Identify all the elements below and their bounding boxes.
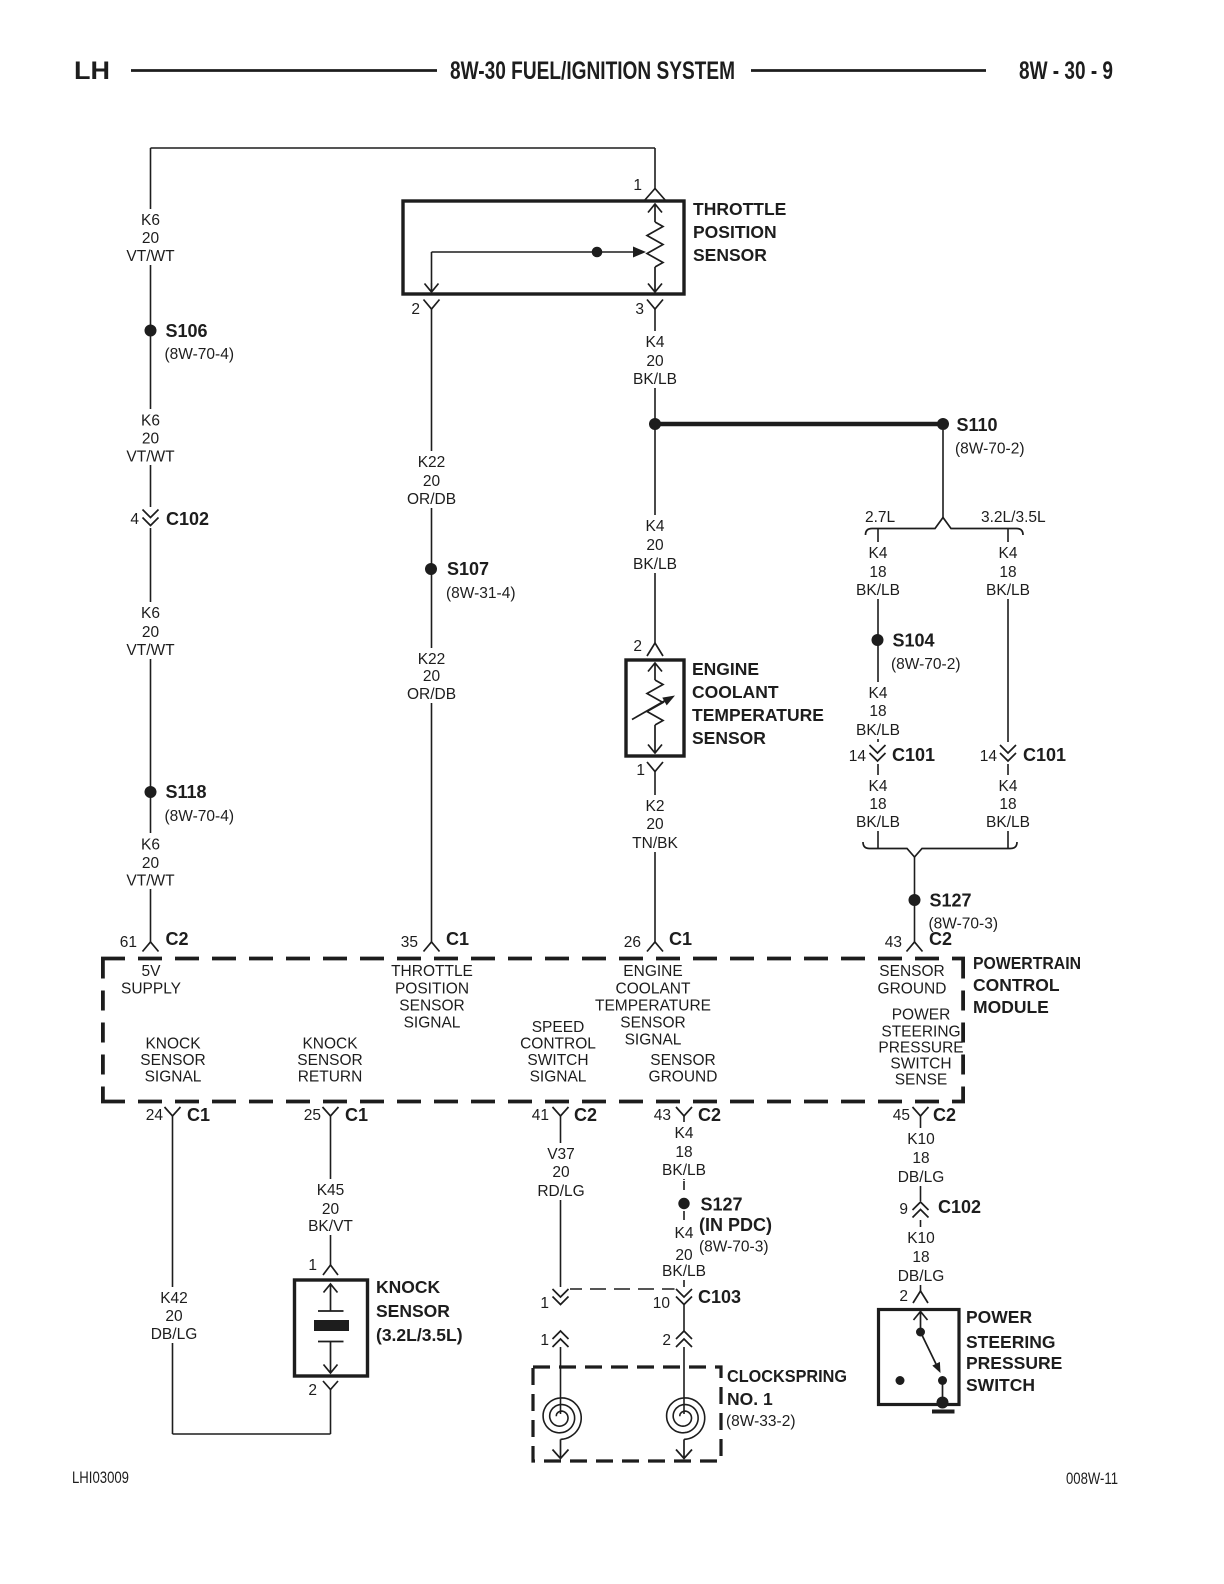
engine coolant temperature sensor box: [626, 660, 684, 756]
svg-text:18: 18: [869, 564, 886, 581]
svg-text:SPEED: SPEED: [532, 1019, 585, 1036]
svg-text:SWITCH: SWITCH: [966, 1375, 1035, 1395]
wire K4 from PCM pin 43 to S127 in PDC: [683, 1116, 685, 1180]
svg-text:18: 18: [912, 1150, 929, 1167]
svg-text:K6: K6: [141, 837, 160, 854]
TPS wiper wire: [432, 252, 635, 283]
wire label K4 20 BK/LB PDC lower: [662, 1222, 706, 1280]
wire label K4 18 BK/LB 3.2L lower: [986, 775, 1030, 831]
wire K2 from ECT sensor pin 1 to PCM pin 26: [654, 771, 656, 942]
connector C101 left: [868, 742, 887, 764]
svg-text:SENSE: SENSE: [895, 1072, 948, 1089]
svg-text:BK/VT: BK/VT: [308, 1218, 353, 1235]
svg-text:3.2L/3.5L: 3.2L/3.5L: [981, 509, 1046, 526]
svg-text:C101: C101: [1023, 745, 1066, 765]
wire label K2 20 TN/BK: [632, 795, 678, 852]
power steering pressure switch box: [879, 1310, 960, 1405]
svg-text:VT/WT: VT/WT: [126, 873, 175, 890]
svg-text:GROUND: GROUND: [878, 981, 947, 998]
wire K4 3.2L/3.5L branch down to merge: [1007, 528, 1009, 848]
svg-text:POWER: POWER: [892, 1007, 951, 1024]
splice S110: [937, 418, 949, 430]
svg-text:20: 20: [142, 624, 160, 641]
splice S127 in PDC: [678, 1198, 689, 1209]
svg-text:8W-30 FUEL/IGNITION SYSTEM: 8W-30 FUEL/IGNITION SYSTEM: [450, 57, 735, 85]
svg-text:K2: K2: [646, 798, 665, 815]
dashed link between C103 connectors: [566, 1288, 676, 1290]
svg-text:OR/DB: OR/DB: [407, 491, 456, 508]
svg-text:CONTROL: CONTROL: [973, 975, 1060, 995]
wire K6 left column vertical: [150, 148, 152, 942]
wire S110 stem down to engine split: [942, 430, 944, 518]
svg-text:20: 20: [165, 1308, 183, 1325]
wire dashed stub above S127: [683, 1181, 685, 1196]
svg-text:K22: K22: [418, 651, 446, 668]
svg-text:DB/LG: DB/LG: [898, 1268, 945, 1285]
connector C103 right half pin 10: [675, 1287, 694, 1305]
merge bracket: [863, 842, 1017, 857]
wire label K6 20 VT/WT second: [126, 409, 175, 466]
wire label K22 20 OR/DB upper: [407, 451, 456, 508]
PCM top pin 43 C2 connector: [907, 942, 923, 952]
svg-text:18: 18: [999, 564, 1016, 581]
clockspring connector pin 2: [676, 1331, 692, 1347]
svg-text:THROTTLE: THROTTLE: [693, 199, 786, 219]
wire label K4 20 BK/LB lower: [633, 515, 677, 573]
wire K4 2.7L branch down to merge: [877, 528, 879, 848]
svg-text:(8W-33-2): (8W-33-2): [726, 1413, 795, 1430]
svg-text:K6: K6: [141, 413, 160, 430]
svg-text:K4: K4: [999, 545, 1018, 562]
svg-text:45: 45: [893, 1107, 910, 1124]
svg-text:K4: K4: [675, 1125, 694, 1142]
throttle position sensor box: [403, 201, 684, 294]
svg-text:STEERING: STEERING: [881, 1024, 960, 1041]
svg-text:(8W-70-3): (8W-70-3): [699, 1239, 768, 1256]
wire label K10 18 DB/LG lower: [898, 1227, 945, 1285]
svg-text:K4: K4: [999, 778, 1018, 795]
PCM bottom pin 41 C2 connector: [553, 1107, 569, 1116]
wire V37 from PCM pin 41 to connector: [560, 1116, 562, 1289]
PSP switch open contact: [896, 1376, 905, 1385]
wire label V37 20 RD/LG: [537, 1143, 584, 1200]
svg-text:1: 1: [540, 1295, 549, 1312]
clockspring coil left: [560, 1396, 562, 1414]
svg-text:C1: C1: [345, 1105, 368, 1125]
svg-text:K6: K6: [141, 212, 160, 229]
svg-text:SIGNAL: SIGNAL: [145, 1069, 202, 1086]
svg-text:2: 2: [308, 1382, 317, 1399]
svg-text:C2: C2: [933, 1105, 956, 1125]
svg-text:20: 20: [423, 668, 441, 685]
svg-text:DB/LG: DB/LG: [151, 1326, 198, 1343]
wire label K6 20 VT/WT fourth: [126, 833, 175, 890]
svg-text:C102: C102: [938, 1197, 981, 1217]
wire K4 from TPS pin 3 to ECT sensor pin 2: [654, 309, 656, 643]
svg-text:2: 2: [633, 638, 642, 655]
ECT thermistor resistor: [647, 663, 663, 753]
svg-text:BK/LB: BK/LB: [986, 814, 1030, 831]
svg-text:SWITCH: SWITCH: [890, 1056, 951, 1073]
svg-text:STEERING: STEERING: [966, 1332, 1055, 1352]
svg-text:C2: C2: [698, 1105, 721, 1125]
svg-text:LHI03009: LHI03009: [72, 1468, 129, 1487]
svg-text:C1: C1: [187, 1105, 210, 1125]
svg-text:BK/LB: BK/LB: [856, 582, 900, 599]
splice S118: [145, 786, 157, 798]
splice S106: [145, 325, 157, 337]
svg-text:POWER: POWER: [966, 1307, 1032, 1327]
PCM bottom pin 24 C1 connector: [165, 1107, 181, 1116]
svg-text:18: 18: [869, 796, 886, 813]
wire label K6 20 VT/WT upper: [126, 209, 175, 265]
clockspring no. 1 dashed box: [533, 1367, 721, 1461]
svg-text:BK/LB: BK/LB: [633, 371, 677, 388]
svg-text:POSITION: POSITION: [395, 981, 469, 998]
svg-text:26: 26: [624, 934, 641, 951]
svg-text:9: 9: [899, 1201, 908, 1218]
svg-text:S127: S127: [701, 1195, 743, 1215]
svg-text:K4: K4: [869, 685, 888, 702]
svg-text:SENSOR: SENSOR: [650, 1052, 715, 1069]
svg-text:20: 20: [142, 431, 160, 448]
svg-text:TEMPERATURE: TEMPERATURE: [692, 705, 824, 725]
svg-text:K4: K4: [869, 778, 888, 795]
svg-text:3: 3: [635, 301, 644, 318]
PSP switch blade: [921, 1332, 937, 1364]
svg-text:RD/LG: RD/LG: [537, 1183, 584, 1200]
svg-text:C101: C101: [892, 745, 935, 765]
svg-text:COOLANT: COOLANT: [616, 981, 691, 998]
connector C103 left half pin 1: [551, 1287, 570, 1305]
wire label K6 20 VT/WT third: [126, 602, 175, 659]
svg-text:1: 1: [540, 1332, 549, 1349]
svg-text:2: 2: [411, 301, 420, 318]
splice S127: [909, 894, 921, 906]
wire K10 from C102 to power steering switch pin 2: [920, 1217, 922, 1291]
PCM top pin 26 C1 connector: [647, 942, 663, 952]
svg-text:BK/LB: BK/LB: [633, 556, 677, 573]
svg-text:20: 20: [646, 353, 664, 370]
svg-text:C102: C102: [166, 509, 209, 529]
svg-text:S107: S107: [447, 559, 489, 579]
svg-text:2: 2: [899, 1288, 908, 1305]
svg-text:CLOCKSPRING: CLOCKSPRING: [727, 1366, 847, 1386]
svg-text:S106: S106: [166, 321, 208, 341]
svg-text:K4: K4: [646, 518, 665, 535]
svg-text:SENSOR: SENSOR: [692, 728, 766, 748]
PSP switch lower contact: [938, 1376, 947, 1385]
svg-text:SENSOR: SENSOR: [376, 1301, 450, 1321]
svg-text:18: 18: [869, 703, 886, 720]
svg-text:TEMPERATURE: TEMPERATURE: [595, 998, 711, 1015]
svg-text:PRESSURE: PRESSURE: [878, 1040, 963, 1057]
svg-text:(8W-31-4): (8W-31-4): [446, 585, 515, 602]
wire label K4 18 BK/LB 2.7L mid: [856, 682, 900, 739]
svg-text:20: 20: [646, 537, 664, 554]
junction node K4: [649, 418, 661, 430]
svg-text:ENGINE: ENGINE: [623, 963, 682, 980]
svg-text:TN/BK: TN/BK: [632, 835, 678, 852]
svg-text:POWERTRAIN: POWERTRAIN: [973, 953, 1081, 973]
connector C102 inline right pin 9: [911, 1201, 930, 1220]
svg-text:OR/DB: OR/DB: [407, 686, 456, 703]
svg-text:(8W-70-4): (8W-70-4): [165, 808, 234, 825]
svg-text:14: 14: [849, 748, 867, 765]
svg-text:10: 10: [653, 1295, 671, 1312]
svg-text:S104: S104: [893, 631, 935, 651]
knock sensor pin 2 connector: [323, 1381, 338, 1390]
svg-text:C2: C2: [574, 1105, 597, 1125]
svg-text:K10: K10: [907, 1230, 935, 1247]
svg-text:BK/LB: BK/LB: [856, 722, 900, 739]
svg-text:C1: C1: [669, 929, 692, 949]
wire K22 from TPS pin 2 to PCM pin 35: [431, 309, 433, 942]
svg-text:(IN PDC): (IN PDC): [699, 1215, 772, 1235]
connector C102 inline left: [141, 507, 160, 528]
TPS pin 1 connector: [644, 189, 666, 202]
wire label K42 20 DB/LG: [151, 1287, 198, 1343]
PSP ground dot: [937, 1397, 949, 1409]
svg-text:GROUND: GROUND: [649, 1069, 718, 1086]
wire merge stem to splice S127 and PCM pin 43: [914, 857, 916, 942]
wire label K22 20 OR/DB lower: [407, 648, 456, 703]
header rule right: [751, 69, 986, 72]
svg-text:(8W-70-2): (8W-70-2): [955, 441, 1024, 458]
wire knock sensor pin 2 down: [330, 1390, 332, 1435]
svg-text:SENSOR: SENSOR: [693, 245, 767, 265]
svg-text:COOLANT: COOLANT: [692, 682, 779, 702]
svg-text:20: 20: [552, 1164, 570, 1181]
PCM top pin 61 C2 connector: [143, 942, 159, 952]
svg-text:1: 1: [308, 1257, 317, 1274]
PCM top pin 35 C1 connector: [424, 942, 440, 952]
svg-text:(8W-70-4): (8W-70-4): [165, 346, 234, 363]
svg-text:SENSOR: SENSOR: [297, 1052, 362, 1069]
svg-text:BK/LB: BK/LB: [662, 1263, 706, 1280]
knock sensor pin 1 connector: [323, 1265, 338, 1275]
svg-text:K22: K22: [418, 454, 446, 471]
knock sensor box: [295, 1280, 368, 1376]
power steering switch pin 2 connector: [913, 1291, 928, 1303]
svg-text:V37: V37: [547, 1146, 575, 1163]
svg-text:008W-11: 008W-11: [1066, 1469, 1118, 1488]
clockspring coil right: [683, 1396, 685, 1414]
svg-text:RETURN: RETURN: [298, 1069, 363, 1086]
svg-text:ENGINE: ENGINE: [692, 659, 759, 679]
wire clockspring pin 1 into spiral: [560, 1347, 562, 1396]
svg-text:S127: S127: [930, 891, 972, 911]
TPS wiper junction dot: [592, 247, 603, 258]
wire thick K4 junction to splice S110: [655, 422, 943, 426]
wire top horizontal from K6 column to TPS pin 1: [151, 147, 656, 149]
wire TPS pin 1 stub: [654, 148, 656, 189]
clockspring connector pin 1: [553, 1331, 569, 1347]
wire into C103 connector: [683, 1280, 685, 1289]
svg-text:KNOCK: KNOCK: [302, 1036, 358, 1053]
svg-text:SENSOR: SENSOR: [140, 1052, 205, 1069]
svg-text:4: 4: [130, 511, 139, 528]
knock sensor piezo element: [314, 1284, 349, 1373]
svg-text:41: 41: [532, 1107, 549, 1124]
svg-text:C1: C1: [446, 929, 469, 949]
svg-text:MODULE: MODULE: [973, 997, 1049, 1017]
svg-text:25: 25: [304, 1107, 321, 1124]
svg-text:(3.2L/3.5L): (3.2L/3.5L): [376, 1325, 463, 1345]
svg-text:5V: 5V: [142, 963, 162, 980]
svg-text:K4: K4: [675, 1225, 694, 1242]
svg-text:61: 61: [120, 934, 137, 951]
PSP switch common contact: [916, 1328, 925, 1337]
PCM bottom pin 43 C2 connector: [676, 1107, 692, 1116]
svg-text:K4: K4: [646, 334, 665, 351]
PSP switch arrow to pin: [914, 1312, 928, 1333]
wire label K45 20 BK/VT: [308, 1179, 353, 1235]
svg-text:14: 14: [980, 748, 998, 765]
svg-text:20: 20: [675, 1247, 693, 1264]
svg-text:PRESSURE: PRESSURE: [966, 1353, 1062, 1373]
svg-text:THROTTLE: THROTTLE: [391, 963, 473, 980]
svg-text:BK/LB: BK/LB: [662, 1162, 706, 1179]
svg-text:LH: LH: [74, 57, 110, 85]
svg-text:S110: S110: [957, 415, 998, 435]
wire bottom horizontal joining knock sensor return: [173, 1433, 331, 1435]
svg-text:43: 43: [654, 1107, 671, 1124]
svg-text:18: 18: [912, 1249, 929, 1266]
svg-text:20: 20: [646, 816, 664, 833]
ground symbol: [932, 1410, 955, 1414]
svg-text:BK/LB: BK/LB: [986, 582, 1030, 599]
svg-text:CONTROL: CONTROL: [520, 1036, 596, 1053]
svg-text:K6: K6: [141, 605, 160, 622]
svg-text:C2: C2: [166, 929, 189, 949]
wire label K4 18 BK/LB 2.7L lower: [856, 775, 900, 831]
svg-text:KNOCK: KNOCK: [376, 1277, 441, 1297]
clockspring coil right exit arrow: [676, 1439, 692, 1458]
svg-text:SENSOR: SENSOR: [879, 963, 944, 980]
svg-text:(8W-70-2): (8W-70-2): [891, 656, 960, 673]
wire K42 from PCM pin 24 down: [172, 1116, 174, 1434]
svg-text:20: 20: [423, 473, 441, 490]
svg-text:VT/WT: VT/WT: [126, 642, 175, 659]
PCM bottom pin 25 C1 connector: [323, 1107, 339, 1116]
wire between C103 and clockspring pin 2: [683, 1304, 685, 1331]
svg-text:SIGNAL: SIGNAL: [625, 1032, 682, 1049]
ECT variable arrow: [632, 700, 666, 720]
svg-text:2: 2: [662, 1332, 671, 1349]
svg-text:VT/WT: VT/WT: [126, 248, 175, 265]
svg-text:SIGNAL: SIGNAL: [404, 1015, 461, 1032]
splice S107: [425, 563, 437, 575]
svg-text:SIGNAL: SIGNAL: [530, 1069, 587, 1086]
svg-text:POSITION: POSITION: [693, 222, 777, 242]
wire dashed stub below S127: [683, 1211, 685, 1280]
svg-text:BK/LB: BK/LB: [856, 814, 900, 831]
wire K45 from PCM pin 25 to knock sensor pin 1: [330, 1116, 332, 1265]
TPS pin 2 arrowhead inside box: [425, 283, 439, 292]
wire label K4 18 BK/LB 3.2L upper: [986, 542, 1030, 599]
svg-text:2.7L: 2.7L: [865, 509, 896, 526]
splice S104: [872, 634, 884, 646]
svg-text:NO. 1: NO. 1: [727, 1389, 773, 1409]
svg-text:35: 35: [401, 934, 418, 951]
svg-text:20: 20: [142, 855, 160, 872]
svg-text:S118: S118: [166, 782, 207, 802]
TPS pin 2 connector: [424, 300, 440, 310]
svg-text:C2: C2: [929, 929, 952, 949]
svg-text:20: 20: [142, 230, 160, 247]
connector C101 right: [999, 742, 1018, 764]
svg-text:SWITCH: SWITCH: [527, 1052, 588, 1069]
wire label K4 18 BK/LB 2.7L upper: [856, 542, 900, 599]
svg-text:18: 18: [675, 1144, 692, 1161]
svg-text:K10: K10: [907, 1131, 935, 1148]
wire clockspring pin 2 into spiral: [683, 1347, 685, 1396]
engine split bracket: [866, 518, 1024, 536]
svg-text:1: 1: [636, 762, 645, 779]
svg-text:K45: K45: [317, 1182, 345, 1199]
svg-text:SENSOR: SENSOR: [399, 998, 464, 1015]
svg-text:8W - 30 - 9: 8W - 30 - 9: [1019, 57, 1113, 85]
TPS pin 3 connector: [647, 300, 663, 310]
svg-text:1: 1: [633, 177, 642, 194]
svg-text:43: 43: [885, 934, 902, 951]
clockspring coil left exit arrow: [553, 1439, 569, 1458]
wire label K4 20 BK/LB upper: [633, 331, 677, 388]
svg-text:24: 24: [146, 1107, 164, 1124]
wire K10 from PCM pin 45 to C102: [920, 1116, 922, 1202]
TPS wiper arrowhead: [633, 247, 646, 258]
svg-text:DB/LG: DB/LG: [898, 1169, 945, 1186]
wire label K4 18 BK/LB PDC upper: [662, 1122, 706, 1179]
wire label K10 18 DB/LG upper: [898, 1128, 945, 1186]
svg-text:SUPPLY: SUPPLY: [121, 981, 181, 998]
PCM bottom pin 45 C2 connector: [913, 1107, 929, 1116]
header rule left: [131, 69, 437, 72]
svg-text:VT/WT: VT/WT: [126, 449, 175, 466]
svg-text:C103: C103: [698, 1287, 741, 1307]
svg-text:18: 18: [999, 796, 1016, 813]
svg-text:K42: K42: [160, 1290, 188, 1307]
TPS potentiometer resistor: [647, 204, 663, 292]
svg-text:K4: K4: [869, 545, 888, 562]
svg-text:SENSOR: SENSOR: [620, 1015, 685, 1032]
ECT pin 1 connector: [647, 762, 663, 772]
powertrain control module dashed box: [101, 959, 965, 1102]
PSP ground stem: [942, 1381, 944, 1403]
ECT pin 2 connector: [647, 643, 663, 656]
svg-text:20: 20: [322, 1201, 340, 1218]
svg-text:KNOCK: KNOCK: [145, 1036, 201, 1053]
